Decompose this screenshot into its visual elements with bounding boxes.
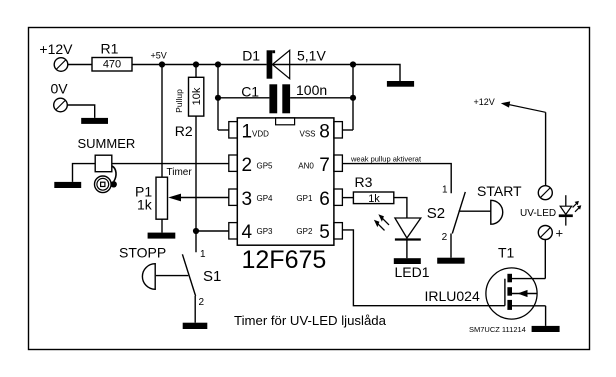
ground (buzzer)	[54, 182, 81, 188]
wire VDD net vertical	[217, 65, 219, 131]
wire pin 7 AN0 to S2	[342, 164, 451, 194]
ground (T1)	[532, 326, 560, 332]
svg-text:GP5: GP5	[257, 161, 274, 170]
svg-text:LED1: LED1	[395, 264, 430, 280]
wire D1 anode to ground	[272, 65, 400, 82]
svg-text:T1: T1	[498, 245, 515, 261]
svg-text:GP2: GP2	[296, 227, 313, 236]
pin 3 GP4	[229, 189, 273, 210]
svg-text:C1: C1	[241, 84, 259, 100]
pin 8 VSS	[300, 121, 343, 142]
LED LED1	[374, 214, 430, 280]
wire to pin 8	[342, 129, 353, 131]
svg-text:R2: R2	[175, 123, 193, 139]
wire P1 bottom to ground	[161, 219, 163, 232]
wire pin 3 GP4 to wiper	[181, 197, 229, 199]
svg-text:AN0: AN0	[298, 161, 314, 170]
wire R2 bottom to S1 contact 1	[195, 116, 197, 252]
svg-text:GP1: GP1	[296, 194, 313, 203]
ground (0V)	[81, 118, 108, 124]
S2 actuator link	[459, 210, 491, 212]
net +12V arrow	[474, 97, 546, 112]
svg-text:GP4: GP4	[257, 194, 274, 203]
svg-text:+: +	[556, 226, 564, 241]
pin 4 GP3	[229, 222, 273, 243]
svg-text:S2: S2	[427, 205, 445, 222]
svg-text:1: 1	[242, 121, 253, 142]
svg-text:S1: S1	[203, 268, 221, 285]
wire pin 5 GP2 to T1 gate	[342, 230, 505, 306]
svg-text:5: 5	[319, 222, 330, 243]
svg-text:weak pullup aktiverat: weak pullup aktiverat	[350, 155, 422, 164]
svg-text:VSS: VSS	[300, 129, 316, 138]
wire buzzer to ground	[73, 164, 96, 182]
S1 actuator link	[156, 275, 188, 277]
wire pin 6 GP1 to R3	[342, 197, 353, 199]
resistor R1 470	[92, 41, 132, 72]
transistor T1 IRLU024	[425, 245, 546, 320]
node junction R2/GP3	[193, 228, 199, 234]
svg-text:1: 1	[442, 185, 448, 196]
svg-text:4: 4	[242, 222, 253, 243]
svg-text:1k: 1k	[137, 197, 153, 213]
ground (LED1)	[394, 258, 421, 264]
svg-text:2: 2	[199, 297, 205, 308]
svg-text:2: 2	[242, 155, 253, 176]
ground (S1)	[183, 323, 208, 329]
wiper arrow	[168, 194, 181, 202]
svg-text:UV-LED: UV-LED	[520, 208, 556, 219]
capacitor C1 100n	[241, 82, 327, 113]
svg-text:1k: 1k	[368, 193, 380, 205]
svg-text:7: 7	[319, 155, 330, 176]
svg-text:470: 470	[103, 59, 121, 71]
terminal UV-LED top	[538, 186, 552, 200]
ground (S2)	[437, 258, 464, 264]
svg-text:R3: R3	[355, 174, 373, 190]
node junction VDD/C1	[215, 95, 221, 101]
ground (top)	[387, 81, 414, 87]
svg-text:R1: R1	[101, 41, 119, 57]
pin 2 GP5	[229, 155, 273, 176]
wire T1 source to ground	[545, 306, 547, 326]
node junction GND/C1	[350, 95, 356, 101]
pin 5 GP2	[296, 222, 342, 243]
svg-text:3: 3	[242, 189, 253, 210]
svg-text:100n: 100n	[296, 82, 327, 98]
terminal 0V	[51, 81, 69, 112]
svg-text:6: 6	[319, 189, 330, 210]
wire +5V rail	[132, 64, 267, 66]
node junction +5V/VDD	[215, 61, 221, 67]
svg-text:12F675: 12F675	[242, 246, 327, 274]
potentiometer P1 1k	[135, 167, 192, 219]
svg-text:8: 8	[319, 121, 330, 142]
LED UV-LED (external)	[520, 195, 581, 225]
svg-text:GP3: GP3	[257, 227, 274, 236]
switch S2 lever	[452, 192, 465, 234]
resistor R2 10k pullup	[174, 77, 204, 139]
buzzer SUMMER	[78, 136, 136, 193]
pin 7 AN0	[298, 155, 342, 176]
pin 6 GP1	[296, 189, 342, 210]
svg-text:IRLU024: IRLU024	[425, 288, 480, 304]
svg-text:SM7UCZ 111214: SM7UCZ 111214	[469, 325, 526, 334]
svg-text:STOPP: STOPP	[119, 245, 166, 261]
svg-text:+12V: +12V	[39, 41, 73, 57]
svg-text:Timer för UV-LED ljuslåda: Timer för UV-LED ljuslåda	[234, 313, 387, 328]
wire +12V to terminal	[545, 112, 547, 185]
svg-text:D1: D1	[242, 48, 260, 64]
terminal +12V	[39, 41, 73, 71]
node junction +5V/R2	[193, 61, 199, 67]
terminal UV-LED bottom +	[538, 226, 563, 241]
wire 0V to ground	[67, 105, 94, 118]
wire to pin 1	[218, 129, 229, 131]
wire +5V to P1 top	[161, 65, 163, 178]
wire S1 contact 2 to ground	[194, 296, 196, 323]
svg-text:5,1V: 5,1V	[297, 48, 326, 64]
wire C1 left	[218, 97, 269, 99]
wire buzzer to pin 2 GP5	[112, 163, 229, 165]
wire terminal to T1 drain	[544, 240, 546, 279]
node junction +5V/P1	[159, 61, 165, 67]
svg-text:Timer: Timer	[167, 167, 193, 178]
ground (P1)	[148, 233, 176, 239]
svg-text:10k: 10k	[191, 87, 203, 105]
wire +5V to R2 top	[195, 65, 197, 78]
wire R3 to LED1	[394, 198, 407, 218]
pushbutton START	[477, 183, 522, 224]
svg-text:SUMMER: SUMMER	[78, 136, 136, 151]
border frame	[29, 28, 590, 350]
zener diode D1 5,1V	[242, 48, 326, 79]
svg-text:Pullup: Pullup	[174, 89, 184, 113]
node junction GND rail	[350, 61, 356, 67]
wire node to pin 4 GP3	[196, 230, 229, 232]
svg-text:+12V: +12V	[474, 97, 495, 107]
op IC U1 12F675 body	[237, 118, 334, 274]
svg-text:VDD: VDD	[252, 129, 269, 138]
wire C1 right	[290, 97, 353, 99]
svg-text:2: 2	[442, 232, 448, 243]
svg-text:0V: 0V	[51, 81, 69, 97]
svg-text:+5V: +5V	[151, 51, 167, 61]
svg-text:1: 1	[200, 249, 206, 260]
wire +12V terminal to R1	[68, 64, 92, 66]
wire S2 contact 2 to ground	[450, 234, 452, 258]
pushbutton STOPP	[119, 245, 166, 290]
switch S1 lever	[182, 254, 195, 296]
resistor R3 1k	[353, 174, 393, 205]
wire VSS net vertical	[352, 65, 354, 131]
pin 1 VDD	[229, 121, 269, 142]
svg-text:START: START	[477, 183, 522, 199]
